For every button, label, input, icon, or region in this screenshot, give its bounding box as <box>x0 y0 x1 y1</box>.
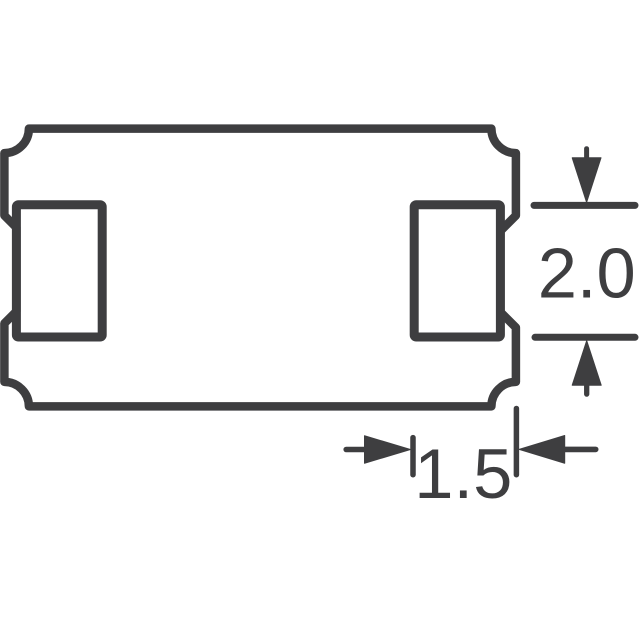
extension line at pad bottom (2.0 dimension) <box>535 334 635 341</box>
body outline <box>4 129 516 407</box>
extension line at pad top (2.0 dimension) <box>534 202 635 209</box>
extension line at body right edge (1.5 dimension) <box>514 409 520 475</box>
svg-text:2.0: 2.0 <box>538 234 636 313</box>
pad 2 (right terminal) <box>414 205 500 337</box>
extension line at right pad left edge (1.5 dimension) <box>410 438 416 475</box>
pad 1 (left terminal) <box>16 205 102 337</box>
arrow left (1.5 right side) <box>519 436 596 464</box>
svg-text:1.5: 1.5 <box>414 434 512 513</box>
arrow up (2.0 bottom) <box>572 341 601 394</box>
arrow right (1.5 left side) <box>346 436 410 464</box>
arrow down (2.0 top) <box>572 149 601 203</box>
